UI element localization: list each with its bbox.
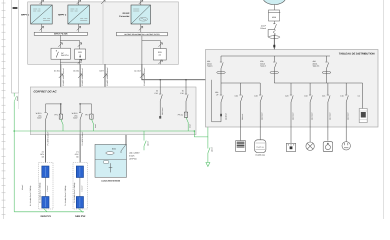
spd dc box xyxy=(75,49,86,59)
svg-text:Type A: Type A xyxy=(207,65,213,68)
earth node distribution xyxy=(207,122,209,124)
sheet border line right xyxy=(383,0,385,219)
svg-text:BATT: BATT xyxy=(100,70,105,73)
label W DC1 xyxy=(36,112,43,120)
connector arrow below MPPT1 xyxy=(40,26,44,30)
wire PV feed U path xyxy=(212,80,221,122)
ground switch PF1 xyxy=(61,119,63,131)
svg-text:INPUT FILTER: INPUT FILTER xyxy=(54,33,68,36)
wire MPPT1 to input filter xyxy=(41,24,43,32)
label DC/AC Converter xyxy=(119,12,130,18)
connector arrow DC IN2 xyxy=(78,74,82,78)
battery specs text xyxy=(129,152,140,161)
svg-text:10mm²: 10mm² xyxy=(147,141,150,146)
earth electrode symbol xyxy=(206,163,210,167)
svg-text:DC/AC: DC/AC xyxy=(123,12,130,15)
earth bus bottom xyxy=(13,208,15,212)
breaker W AC2 xyxy=(185,80,188,112)
label W AC2 xyxy=(180,90,184,95)
meter kWh xyxy=(268,10,280,21)
wire DC-AC input top xyxy=(140,0,142,5)
connector arrow PV2 top xyxy=(77,0,81,4)
fuse switch W DC2 xyxy=(79,104,82,135)
load water heater xyxy=(255,140,266,153)
node junction AC2 xyxy=(185,79,186,80)
label W AC1 xyxy=(155,90,159,95)
svg-text:8 X Module Serie S 500Wp: 8 X Module Serie S 500Wp xyxy=(29,186,32,206)
svg-text:Type AC: Type AC xyxy=(313,65,320,68)
terminal marks string1 xyxy=(40,151,45,159)
input filter bar xyxy=(34,32,87,35)
svg-text:LUNA 2000 5KW-B0: LUNA 2000 5KW-B0 xyxy=(101,180,121,183)
wire PV1 input top xyxy=(41,0,43,5)
svg-text:25mm²: 25mm² xyxy=(210,147,213,152)
svg-text:POWER WIRE 2x6mm²: POWER WIRE 2x6mm² xyxy=(62,68,65,86)
svg-text:5 kWh: 5 kWh xyxy=(129,155,134,158)
contactor box xyxy=(359,109,367,123)
svg-text:7 X Module Serie S 500Wp: 7 X Module Serie S 500Wp xyxy=(73,183,76,203)
wire grid to meter xyxy=(273,5,275,11)
svg-text:16mm²: 16mm² xyxy=(16,95,19,101)
svg-text:Chauffe-eau: Chauffe-eau xyxy=(255,153,265,156)
svg-text:500mA: 500mA xyxy=(260,27,266,30)
svg-text:SWITCH: SWITCH xyxy=(61,54,69,57)
connector arrow below spd ac xyxy=(158,60,162,64)
svg-text:PV WIRE 2x6mm²: PV WIRE 2x6mm² xyxy=(46,131,49,145)
spd PF2 xyxy=(90,114,93,119)
svg-text:COFFRET DC-AC: COFFRET DC-AC xyxy=(34,90,58,94)
wire stub DC IN2 xyxy=(79,64,81,104)
battery box xyxy=(95,144,127,177)
svg-text:GEN PV2: GEN PV2 xyxy=(75,215,86,218)
wire branch DC1 to string switch xyxy=(46,104,61,112)
svg-text:OUTPUT RELAY/SWITCH + OUTPUT F: OUTPUT RELAY/SWITCH + OUTPUT FILTER xyxy=(124,33,160,36)
terminal strip block left xyxy=(12,0,19,109)
wire branch DC2 to spd xyxy=(80,104,91,114)
load vmc xyxy=(323,142,333,152)
terminal marks string2 xyxy=(75,151,80,159)
svg-text:PF2: PF2 xyxy=(85,113,88,116)
wire PV2 input top xyxy=(78,0,80,5)
pv module PV2-1 xyxy=(76,166,83,178)
sub bus 2 xyxy=(274,82,362,84)
svg-text:GEN PV1: GEN PV1 xyxy=(41,215,52,218)
svg-text:kWh: kWh xyxy=(272,16,276,19)
wire between modules string1 xyxy=(44,178,46,197)
output filter bar xyxy=(117,32,168,36)
wire between modules string2 xyxy=(79,178,81,197)
svg-text:C16: C16 xyxy=(180,92,183,95)
load socket xyxy=(342,142,350,150)
ground tick string2 xyxy=(79,209,83,213)
svg-text:POWER WIRE 2x10mm²: POWER WIRE 2x10mm² xyxy=(106,67,109,86)
connector arrow below MPPT2 xyxy=(77,26,81,30)
pv string2 box xyxy=(73,163,88,210)
pv module PV1-1 xyxy=(42,166,49,178)
main bus xyxy=(221,55,330,57)
wire output filter down to ac out xyxy=(142,36,161,65)
rcd ID2 toroid xyxy=(270,71,279,74)
svg-text:Converter: Converter xyxy=(119,15,129,18)
breaker C4 circuit xyxy=(309,83,312,142)
ground switch PF AC xyxy=(186,117,188,131)
battery earth branch xyxy=(144,131,146,150)
svg-text:C16: C16 xyxy=(155,92,158,95)
connector arrow battery top xyxy=(101,0,105,4)
svg-text:MPPT 2: MPPT 2 xyxy=(58,14,67,17)
rcd ID1 xyxy=(220,56,223,83)
battery cell label xyxy=(104,161,109,163)
label breaker PV xyxy=(215,91,219,96)
distribution board box xyxy=(206,50,379,128)
junction mark main xyxy=(273,45,275,48)
breaker W AC1 xyxy=(159,80,162,117)
svg-text:SB: SB xyxy=(42,156,45,159)
svg-text:PF1: PF1 xyxy=(55,113,58,116)
connector mark PV feed xyxy=(220,114,222,117)
dc-dc converter block MPPT2 xyxy=(68,5,90,24)
ground switch PF2 xyxy=(92,119,94,131)
battery switch xyxy=(121,144,126,153)
connector arrow above spd dc xyxy=(78,43,82,47)
svg-text:Chauffe eau: Chauffe eau xyxy=(256,146,264,148)
wire breaker to board xyxy=(273,35,275,56)
rcd ID2 xyxy=(273,56,276,83)
dc switch box xyxy=(51,48,70,59)
svg-text:Udc=1,500V: Udc=1,500V xyxy=(129,152,140,155)
earth wire vertical left xyxy=(13,93,15,97)
earth node left xyxy=(13,130,15,132)
svg-text:SPD: SPD xyxy=(78,51,83,54)
wire below dc switch xyxy=(59,59,61,64)
wire jog below dc switch xyxy=(60,61,82,63)
load lamp xyxy=(306,142,314,150)
spd PF AC xyxy=(184,112,187,117)
svg-text:DC IN2: DC IN2 xyxy=(73,70,79,73)
spd PF1 xyxy=(59,104,62,119)
svg-text:Type A: Type A xyxy=(260,65,266,68)
sheet border ruler left xyxy=(2,0,6,219)
wire stub DC IN1 xyxy=(60,64,62,104)
connector arrow DC-AC top xyxy=(139,0,143,4)
label rcd ID3 xyxy=(313,60,320,68)
svg-text:C16: C16 xyxy=(322,95,325,98)
contactor device xyxy=(362,83,364,109)
svg-text:PV WIRE 2x6mm²: PV WIRE 2x6mm² xyxy=(81,131,84,145)
connector arrow PV1 top xyxy=(40,0,44,4)
wire input filter to dc switch xyxy=(60,35,79,49)
load washer xyxy=(286,143,295,151)
rcd ID3 toroid xyxy=(322,71,331,74)
connector arrow below dcac xyxy=(139,26,143,30)
wire battery from inverter xyxy=(105,64,126,144)
earth wire to distribution xyxy=(194,123,208,137)
wire end mark AC1 xyxy=(159,116,161,119)
breaker C5 circuit xyxy=(327,83,330,141)
breaker C1 circuit xyxy=(239,83,242,141)
svg-text:C10: C10 xyxy=(304,95,307,98)
grid utility ellipse xyxy=(263,0,286,5)
dc-dc converter block MPPT1 xyxy=(31,5,53,24)
connector arrow DC IN1 xyxy=(59,74,63,78)
svg-text:C32: C32 xyxy=(235,95,238,98)
earth electrode wire xyxy=(207,137,209,163)
pv module PV1-2 xyxy=(42,197,49,209)
svg-text:MPPT 1: MPPT 1 xyxy=(21,14,30,17)
pv module PV2-2 xyxy=(76,197,83,209)
main breaker toroid xyxy=(269,36,280,39)
svg-text:POWER WIRE 2x6mm²: POWER WIRE 2x6mm² xyxy=(81,68,84,86)
earth node right xyxy=(194,130,196,132)
node junction DC1 xyxy=(60,103,61,104)
wire ac out xyxy=(142,64,210,80)
ground tick string1 xyxy=(44,209,48,212)
svg-text:7 X Module Serie S 500Wp: 7 X Module Serie S 500Wp xyxy=(64,186,67,206)
svg-text:C2: C2 xyxy=(358,95,360,98)
connector arrow BATT xyxy=(103,74,107,78)
fuse switch W DC1 xyxy=(45,113,48,135)
wire meter to breaker xyxy=(273,21,275,24)
connector arrow AC OUT xyxy=(140,74,144,78)
svg-text:16mm²: 16mm² xyxy=(21,184,24,190)
svg-text:C16: C16 xyxy=(340,95,343,98)
svg-text:C20: C20 xyxy=(285,95,288,98)
svg-text:TABLEAU DE DISTRIBUTION: TABLEAU DE DISTRIBUTION xyxy=(339,52,375,55)
svg-text:POWER WIRE 3G6mm²: POWER WIRE 3G6mm² xyxy=(143,67,146,86)
label W DC2 xyxy=(72,112,79,120)
svg-text:8 X Module Serie S 500Wp: 8 X Module Serie S 500Wp xyxy=(39,183,42,203)
svg-text:SB: SB xyxy=(76,156,79,159)
breaker C2 circuit xyxy=(259,83,262,140)
rcd ID1 toroid xyxy=(217,71,226,74)
wire string2 riser xyxy=(79,135,81,166)
label rcd ID2 xyxy=(260,60,266,68)
label rcd ID1 xyxy=(207,60,213,68)
spd ac box xyxy=(154,49,167,61)
inverter enclosure box xyxy=(28,2,179,64)
breaker C3 circuit xyxy=(290,83,293,143)
wire dcac to output filter xyxy=(140,24,142,32)
breaker PV injection xyxy=(220,83,223,122)
svg-text:LiFePO4: LiFePO4 xyxy=(129,158,136,161)
pv string1 box xyxy=(39,163,54,210)
earth bus coffret xyxy=(14,130,194,132)
battery cell symbol xyxy=(109,163,113,172)
svg-text:PF AC: PF AC xyxy=(178,114,184,117)
connector arrow above dc switch xyxy=(58,43,62,47)
main breaker AGCP xyxy=(268,24,276,37)
wire MPPT2 to input filter xyxy=(78,24,80,32)
wire below spd ac xyxy=(159,60,161,64)
node junction AC1 xyxy=(160,79,161,80)
dc-ac converter block U1 xyxy=(131,5,151,24)
node junction DC2 xyxy=(79,103,80,104)
earth switch xyxy=(208,148,210,154)
breaker C6 circuit xyxy=(345,83,348,142)
wire string1 riser xyxy=(45,135,47,166)
coffret dc-ac box xyxy=(30,87,196,135)
svg-text:AC OUT: AC OUT xyxy=(134,70,142,73)
load stove xyxy=(236,141,246,152)
connector arrow above spd ac xyxy=(158,43,162,47)
label AGCP xyxy=(260,25,267,30)
svg-text:DC IN1: DC IN1 xyxy=(54,70,60,73)
sub bus 1 xyxy=(221,82,260,84)
rcd ID3 xyxy=(325,56,328,83)
connector arrow below spd dc xyxy=(78,60,82,64)
battery bms ellipse xyxy=(106,152,114,155)
svg-text:C20: C20 xyxy=(254,95,257,98)
wire below spd dc xyxy=(79,59,81,64)
